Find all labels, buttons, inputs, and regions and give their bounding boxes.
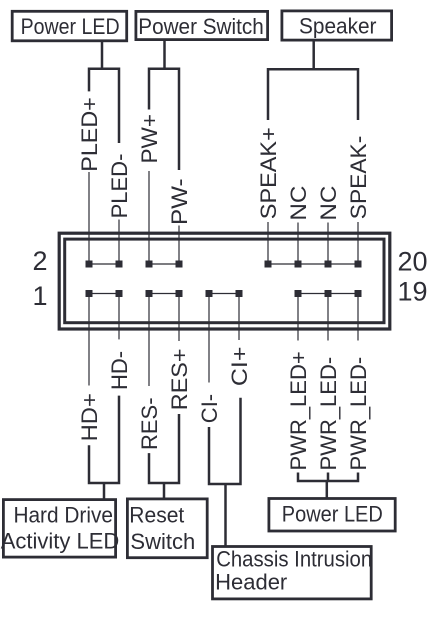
svg-text:PWR_LED-: PWR_LED- [346,357,371,471]
wire CI bracket [209,398,241,484]
wire PW+ to pin 6 [148,171,150,261]
box Speaker [282,11,392,40]
pin 15 [295,290,302,297]
svg-text:Reset: Reset [129,502,184,527]
svg-text:NC: NC [286,185,311,220]
box Chassis Intrusion Header [213,547,372,599]
pin 4 [116,261,123,268]
wire NC to pin 18 [327,223,329,262]
svg-text:SPEAK-: SPEAK- [346,136,371,219]
svg-text:CI+: CI+ [227,347,252,387]
wire Power LED stem [101,42,104,70]
svg-text:Hard Drive: Hard Drive [13,502,113,527]
wire PW- to pin 8 [178,226,180,262]
wire PLED+ to pin 2 [88,172,90,261]
wire RES stem [163,483,166,500]
svg-text:HD-: HD- [107,351,132,390]
pin 9 [206,290,213,297]
svg-text:NC: NC [316,185,341,220]
svg-text:PW-: PW- [167,178,192,225]
svg-text:Power LED: Power LED [282,502,383,527]
wire pair link CI pins [209,293,239,295]
wire CI- from pin 9 [208,297,210,383]
svg-text:Chassis Intrusion: Chassis Intrusion [216,547,372,572]
wire Power Switch stem [163,40,166,70]
pin 7 [176,290,183,297]
wire HD+ from pin 1 [88,297,90,386]
wire PWR_LED bracket [298,473,358,482]
pin 20 [355,261,362,268]
svg-text:PLED-: PLED- [107,154,132,219]
box Power LED (top) [12,11,127,41]
connector inner box [65,239,384,323]
pin 16 [295,261,302,268]
svg-text:Power Switch: Power Switch [138,14,264,39]
svg-text:Power LED: Power LED [21,14,120,39]
pin 5 [146,290,153,297]
wire link speaker pins [268,263,358,265]
svg-text:PWR_LED+: PWR_LED+ [286,351,311,470]
pin 3 [116,290,123,297]
wire RES+ from pin 7 [178,297,180,342]
wire HD stem [103,483,106,500]
pin 1 [86,290,93,297]
wire PWR_LED mid stub [327,473,330,482]
wire CI+ from pin 11 [238,297,240,341]
wire RES bracket [149,414,179,483]
svg-text:Header: Header [215,569,287,594]
wire RES- from pin 5 [148,297,150,387]
svg-text:CI-: CI- [197,394,222,423]
wire HD- from pin 3 [118,297,120,340]
wire NC to pin 16 [297,223,299,262]
connector outer box [59,233,390,329]
wire Speaker bracket [268,69,358,120]
wire SPEAK- to pin 20 [357,222,359,261]
svg-text:RES-: RES- [137,397,162,450]
svg-text:PW+: PW+ [137,114,162,164]
pin 2 [86,261,93,268]
wire SPEAK+ to pin 14 [267,222,269,261]
svg-text:PLED+: PLED+ [77,97,102,171]
svg-text:20: 20 [397,247,427,277]
wire CI stem [224,484,227,547]
box Hard Drive Activity LED [3,500,115,557]
wire PWR_LED- from pin 17 [327,297,329,341]
wire link PWR_LED pins [298,293,358,295]
wire HD bracket [89,396,119,483]
box Power LED (bottom) [269,499,395,532]
svg-text:19: 19 [397,277,427,307]
wire PLED- to pin 4 [118,220,120,262]
wire pair link pins 5-7 [149,263,179,265]
wire pair link pins 1-3 [89,263,119,265]
svg-text:Speaker: Speaker [299,14,377,39]
pin 11 [236,290,243,297]
wire pair link RES pins [149,293,179,295]
svg-text:RES+: RES+ [167,348,192,410]
wire Power Switch bracket [149,69,179,170]
box Power Switch [136,11,268,39]
pin 8 [176,261,183,268]
wire pair link HD pins [89,293,119,295]
wire PWR_LED+ from pin 15 [297,297,299,341]
pin 14 [265,261,272,268]
svg-text:1: 1 [32,281,47,311]
svg-text:SPEAK+: SPEAK+ [256,127,281,219]
pin 17 [325,290,332,297]
svg-text:2: 2 [32,246,47,276]
pin 18 [325,261,332,268]
svg-text:PWR_LED-: PWR_LED- [316,357,341,471]
wire PWR_LED- from pin 19 [357,297,359,341]
wire Speaker stem [312,41,315,71]
svg-text:Activity LED: Activity LED [1,529,120,554]
pin 6 [146,261,153,268]
wire PWR_LED stem [326,481,329,499]
svg-text:HD+: HD+ [77,393,102,441]
box Reset Switch [127,499,207,558]
pin 19 [355,290,362,297]
svg-text:Switch: Switch [130,529,195,554]
wire Power LED bracket [89,69,119,143]
